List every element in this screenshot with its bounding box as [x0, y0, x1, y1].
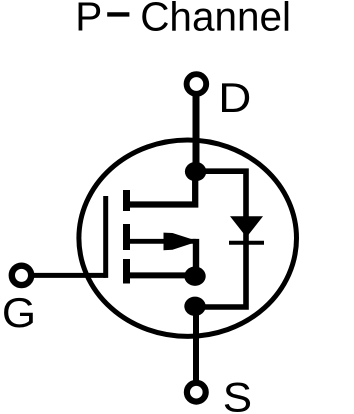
svg-text:P: P: [75, 0, 102, 40]
svg-text:D: D: [218, 76, 251, 121]
svg-text:Channel: Channel: [140, 0, 291, 40]
svg-text:G: G: [2, 290, 36, 336]
svg-text:S: S: [223, 375, 252, 414]
